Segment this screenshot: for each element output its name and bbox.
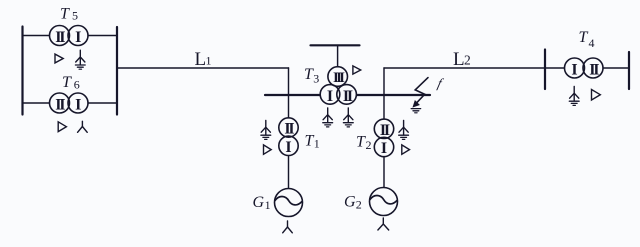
svg-text:G: G: [253, 194, 265, 211]
grounded-wye symbol (T3 winding II): [343, 108, 353, 127]
svg-text:I: I: [571, 62, 577, 79]
wire: line L2 (riser to bus C): [384, 67, 545, 69]
svg-text:2: 2: [356, 197, 362, 211]
transformer T5: [50, 26, 89, 47]
svg-text:L: L: [195, 49, 207, 70]
generator G1: [275, 189, 303, 217]
wye symbol (G1 neutral): [283, 221, 293, 233]
svg-text:G: G: [344, 193, 356, 210]
wire: T6 branch (bus A to bus B): [23, 102, 118, 104]
wire: middle bus down to T1 and G1: [288, 95, 290, 189]
label L1: [195, 49, 212, 70]
wire: T3 stem to top bus: [337, 45, 339, 68]
transformer T1: [279, 118, 298, 156]
wye symbol (T6 winding I): [78, 121, 88, 132]
grounded-wye symbol (T3 winding I): [323, 108, 333, 127]
bus D (right section right busbar): [628, 52, 630, 89]
wire: bus C through T4 to bus D: [545, 67, 629, 69]
transformer T4: [565, 58, 604, 79]
generator G2: [370, 188, 398, 216]
grounded-wye symbol (T2 winding II): [399, 120, 409, 139]
ground symbol (fault): [411, 109, 420, 113]
svg-text:T: T: [356, 133, 366, 150]
wire: middle bus down to T2 and G2: [383, 95, 385, 188]
svg-text:I: I: [75, 97, 81, 114]
label G2: [344, 193, 362, 211]
svg-text:T: T: [579, 29, 589, 46]
svg-text:3: 3: [313, 71, 319, 85]
transformer T2: [374, 119, 393, 157]
bus C (right section left busbar): [544, 50, 546, 90]
transformer T3 (three-winding): [320, 67, 356, 105]
transformer T6: [50, 93, 89, 114]
bus: top busbar above T3: [311, 44, 360, 46]
svg-text:I: I: [381, 140, 387, 157]
label G1: [253, 194, 271, 212]
label T5: [60, 5, 78, 22]
svg-text:T: T: [62, 74, 72, 91]
fault lightning arrow at point f: [413, 78, 428, 107]
grounded-wye symbol (T4 winding I): [569, 86, 579, 105]
grounded-wye symbol (T1 winding II): [261, 120, 271, 139]
svg-text:6: 6: [74, 78, 80, 92]
delta symbol (T4 winding II): [592, 90, 601, 101]
svg-text:T: T: [60, 5, 70, 22]
svg-text:2: 2: [464, 52, 471, 67]
delta symbol (T5 winding II): [55, 54, 63, 63]
wye symbol (G2 neutral): [378, 218, 389, 230]
svg-text:1: 1: [314, 136, 320, 150]
bus A (left outer busbar): [21, 27, 23, 115]
svg-text:I: I: [285, 139, 291, 156]
label T1: [305, 132, 320, 150]
svg-text:1: 1: [265, 198, 271, 212]
svg-text:I: I: [75, 29, 81, 46]
label L2: [453, 49, 471, 70]
bus B (left inner busbar): [116, 27, 118, 115]
grounded-wye symbol (T5 winding I): [75, 50, 85, 69]
label T4: [579, 29, 595, 50]
svg-text:I: I: [327, 88, 333, 105]
wire: L1 riser down to middle bus: [288, 68, 290, 95]
svg-text:f: f: [436, 76, 446, 91]
label T3: [304, 66, 319, 86]
svg-text:4: 4: [589, 36, 595, 50]
delta symbol (T2 winding I): [402, 145, 410, 154]
delta symbol (T6 winding II): [58, 122, 66, 132]
label T6: [62, 74, 80, 92]
svg-text:L: L: [453, 49, 465, 70]
bus: middle busbar: [265, 94, 430, 96]
delta symbol (T1 winding I): [264, 145, 272, 154]
wire: T5 branch (bus A to bus B): [23, 35, 118, 37]
delta symbol (T3 winding III): [353, 66, 361, 74]
svg-text:5: 5: [72, 9, 78, 23]
label T2: [356, 133, 372, 152]
wire: L2 riser (middle bus up to line L2): [383, 68, 385, 95]
svg-text:2: 2: [366, 138, 372, 152]
svg-text:1: 1: [206, 53, 212, 67]
wire: line L1 (bus B to riser): [117, 67, 289, 69]
